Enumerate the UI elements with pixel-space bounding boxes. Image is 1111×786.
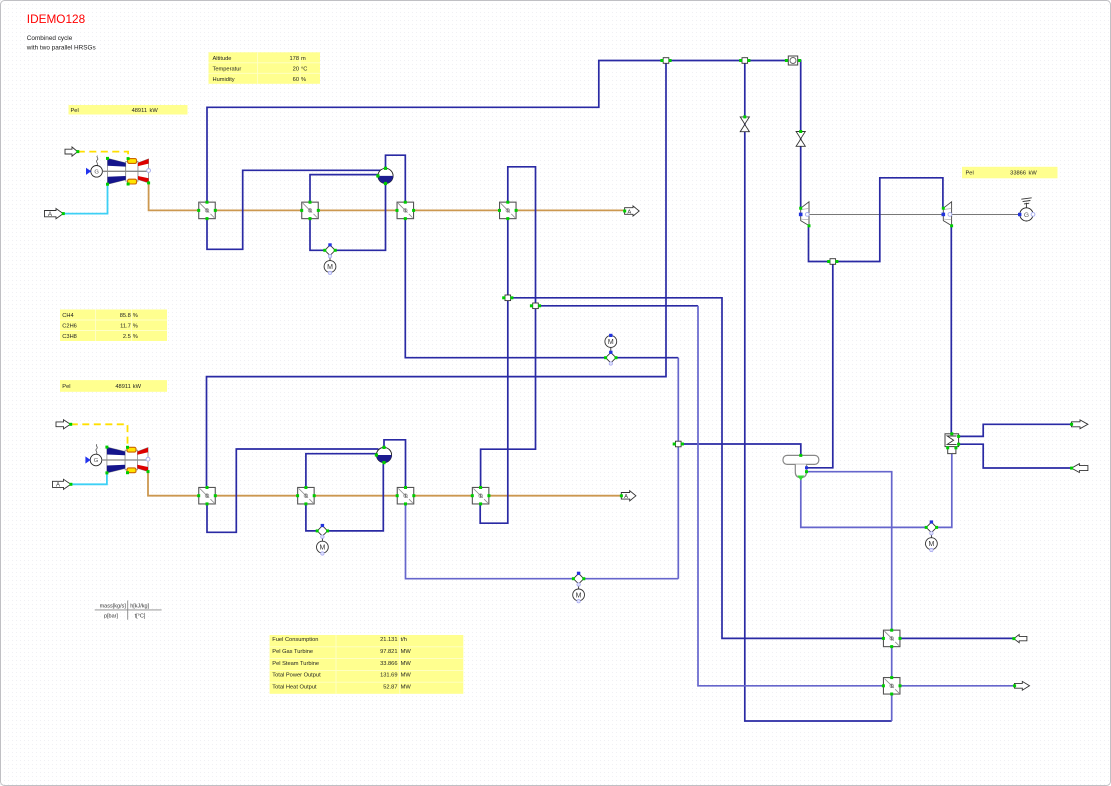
svg-text:A: A	[48, 212, 52, 218]
svg-text:97.821: 97.821	[380, 649, 397, 655]
svg-text:h[kJ/kg]: h[kJ/kg]	[130, 604, 149, 610]
svg-text:Pel Gas Turbine: Pel Gas Turbine	[272, 649, 313, 655]
motor valve V3 (HRSG1 feedwater)	[604, 334, 617, 365]
svg-text:20: 20	[293, 66, 299, 72]
wire: GT2 exhaust gas line to stack arrow	[148, 472, 623, 496]
svg-text:Total Power Output: Total Power Output	[272, 673, 321, 679]
wire: drum1 steam outlet to HX3	[386, 155, 406, 202]
air inlet arrow A (GT1)	[45, 209, 65, 219]
wire: HX2' riser to drum2	[306, 454, 377, 488]
fuel inlet arrow (GT2)	[56, 420, 72, 429]
svg-text:kW: kW	[1029, 171, 1038, 177]
svg-text:Temperatur: Temperatur	[213, 66, 242, 72]
motor valve V1 (drum1 feed)	[323, 243, 336, 274]
wire: steam turbine shaft	[809, 214, 1020, 216]
svg-text:C2H6: C2H6	[62, 324, 77, 330]
junction node J6 (extraction tee)	[827, 259, 838, 265]
node: HX connection ports (green)	[197, 201, 901, 696]
junction node J3 (HX4 bottom tee)	[502, 295, 513, 301]
wire: feedwater riser x=678 through mixer junction	[677, 358, 679, 579]
district heating supply arrow (right)	[1013, 681, 1029, 690]
wire: HX4 top loop connecting both HRSG HP sections (x=535.5)	[481, 167, 536, 487]
label: Pel GT2	[60, 380, 167, 392]
svg-text:%: %	[301, 77, 306, 83]
svg-text:Pel Steam Turbine: Pel Steam Turbine	[272, 661, 319, 667]
heat exchanger HX1 (HRSG1 economizer)	[199, 202, 216, 219]
steam turbine ST2 (LP)	[942, 202, 954, 228]
wire: HRSG1 superheater to main steam header	[207, 61, 801, 209]
junction node J2 (bypass tee)	[739, 58, 750, 64]
wire: GT2 fuel line (yellow dashed)	[71, 424, 128, 447]
flue gas outlet arrow A (HRSG2)	[620, 491, 636, 501]
svg-text:C3H8: C3H8	[62, 334, 77, 340]
steam turbine ST1 (HP)	[799, 202, 811, 228]
flue gas outlet arrow A (HRSG1)	[623, 206, 639, 216]
cooling water outlet arrow	[1070, 420, 1088, 429]
wire: ST2 exhaust to condenser	[950, 226, 952, 434]
table: plant results	[270, 635, 464, 694]
gas turbine GT2 (generator, compressor, combustor, turbine)	[85, 444, 149, 474]
wire: HX2 riser to drum1	[310, 175, 379, 203]
steam drum D1	[376, 167, 393, 185]
wire: GT1 exhaust gas line to stack arrow	[149, 183, 627, 211]
svg-text:A: A	[627, 209, 631, 215]
node: measuring orifice on header	[785, 56, 801, 65]
junction node J1 (main steam header)	[660, 58, 671, 64]
svg-text:MW: MW	[401, 684, 412, 690]
svg-text:48911: 48911	[115, 384, 130, 390]
svg-text:52.87: 52.87	[383, 684, 397, 690]
wire: cooling water inlet to condenser	[959, 444, 1072, 468]
motor valve V2 (drum2 feed)	[316, 524, 329, 555]
heat exchanger DH-B (district heating)	[883, 678, 900, 695]
condenser (sigma heat sink)	[945, 432, 960, 453]
svg-text:48911: 48911	[132, 108, 147, 114]
wire: mixer junction to deaerator inlet	[678, 444, 801, 455]
svg-text:MW: MW	[401, 661, 412, 667]
svg-text:G: G	[1024, 212, 1029, 219]
wire: HX2' downcomer with control valve to drum2 bottom	[306, 463, 383, 531]
valve VLV1 (steam bypass)	[740, 115, 749, 131]
wire: HX4 bottom line connecting both HRSGs (x=507.8)	[480, 219, 508, 524]
table: ambient conditions	[209, 52, 321, 84]
wire: HX2 downcomer with control valve to drum1 bottom	[310, 184, 386, 251]
svg-text:33.866: 33.866	[380, 661, 397, 667]
wire: extraction steam to deaerator	[807, 262, 833, 468]
svg-text:11.7: 11.7	[120, 324, 131, 330]
svg-text:Pel: Pel	[62, 384, 70, 390]
wire: cooling water outlet from condenser	[959, 424, 1072, 436]
svg-text:with two parallel HRSGs: with two parallel HRSGs	[26, 45, 96, 52]
air inlet arrow A (GT2)	[53, 479, 73, 489]
svg-text:85.8: 85.8	[120, 313, 131, 319]
wire: district heating B supply (x=698)	[698, 306, 1015, 686]
svg-text:IDEMO128: IDEMO128	[27, 12, 86, 26]
svg-text:Fuel Consumption: Fuel Consumption	[272, 637, 318, 643]
svg-text:t[°C]: t[°C]	[135, 614, 146, 620]
wire: tee at y=306 toward district heater B	[536, 305, 699, 307]
svg-text:131.69: 131.69	[380, 673, 397, 679]
wire: HRSG2 HX3' outlet line with motor valve (y=578.7)	[406, 504, 679, 579]
heat exchanger HX2' (HRSG2 evaporator)	[298, 487, 315, 504]
svg-text:MW: MW	[401, 649, 412, 655]
svg-text:21.131: 21.131	[380, 637, 397, 643]
svg-text:Combined cycle: Combined cycle	[27, 35, 73, 42]
svg-text:A: A	[624, 494, 628, 500]
cooling water inlet arrow	[1070, 464, 1088, 473]
svg-text:Pel: Pel	[966, 171, 974, 177]
wire: GT1 air inlet (cyan)	[63, 184, 107, 213]
svg-text:Altitude: Altitude	[213, 56, 232, 62]
heat exchanger DH-A (district heating)	[883, 630, 900, 647]
wire: HX1 economizer loop to drum1	[207, 170, 381, 249]
svg-text:°C: °C	[301, 66, 307, 72]
svg-text:m: m	[301, 56, 306, 62]
wire: tee at y=298 to district heater A	[508, 298, 1014, 639]
heat exchanger HX1' (HRSG2 economizer)	[199, 487, 216, 504]
generator G3 (steam turbine generator with ground symbol)	[1018, 198, 1035, 221]
svg-text:kW: kW	[150, 108, 159, 114]
svg-text:kW: kW	[133, 384, 142, 390]
heat exchanger HX4' (HRSG2 superheater)	[472, 487, 489, 504]
wire: GT1 fuel line (yellow dashed)	[78, 152, 128, 159]
heat exchanger HX3 (HRSG1)	[397, 202, 414, 219]
svg-text:60: 60	[293, 77, 299, 83]
svg-text:Total Heat Output: Total Heat Output	[272, 684, 317, 690]
wire: HRSG2 economizer loop to drum2	[207, 449, 379, 532]
svg-text:Pel: Pel	[71, 108, 79, 114]
svg-text:t/h: t/h	[401, 637, 407, 643]
table: fuel composition	[60, 310, 167, 342]
motor valve V5 (condensate pump)	[925, 520, 938, 551]
wire: GT2 air inlet (cyan)	[71, 473, 107, 484]
svg-text:2.5: 2.5	[123, 334, 131, 340]
label: Pel steam turbine	[962, 167, 1058, 179]
svg-text:%: %	[133, 334, 138, 340]
fuel inlet arrow (GT1)	[65, 147, 79, 156]
wire: ST1 exhaust crossover to ST2	[809, 178, 943, 262]
wire: steam header branch down to HRSG2 (x=666)	[207, 61, 667, 488]
heat exchanger HX4 (HRSG1 superheater)	[500, 202, 517, 219]
svg-text:MW: MW	[401, 673, 412, 679]
motor valve V4 (HRSG2 feedwater)	[572, 572, 585, 603]
label: Pel GT1	[69, 105, 188, 115]
wire: steam bypass line from header down and to district heaters	[745, 61, 892, 722]
wire: HX3 outlet through motor valve to mixer	[405, 219, 678, 358]
wire: deaerator outlet down through district heaters A and B	[807, 472, 892, 721]
junction node J5 (feedwater mixer)	[673, 441, 684, 447]
district heating return arrow (left)	[1012, 635, 1027, 643]
deaerator / feedwater tank	[783, 454, 819, 481]
svg-text:Humidity: Humidity	[213, 77, 235, 83]
legend: value cross table	[95, 601, 162, 620]
wire: condensate line from condenser through pump valve to feedwater tank	[801, 454, 952, 527]
wire: drum2 steam outlet to HX3'	[384, 440, 406, 487]
svg-text:A: A	[56, 483, 60, 489]
heat exchanger HX3' (HRSG2)	[397, 487, 414, 504]
valve VLV2 (ST inlet / live steam)	[796, 130, 805, 146]
steam drum D2	[375, 446, 392, 464]
svg-text:%: %	[133, 324, 138, 330]
heat exchanger HX2 (HRSG1 evaporator)	[302, 202, 319, 219]
junction node J4 (HX4 top tee)	[530, 303, 541, 309]
svg-text:CH4: CH4	[62, 313, 73, 319]
svg-text:%: %	[133, 313, 138, 319]
gas turbine GT1 (generator, compressor, combustor, turbine)	[86, 156, 151, 186]
svg-text:178: 178	[290, 56, 300, 62]
svg-text:p[bar]: p[bar]	[104, 614, 119, 620]
svg-text:mass[kg/s]: mass[kg/s]	[100, 604, 127, 610]
svg-text:33866: 33866	[1010, 171, 1026, 177]
